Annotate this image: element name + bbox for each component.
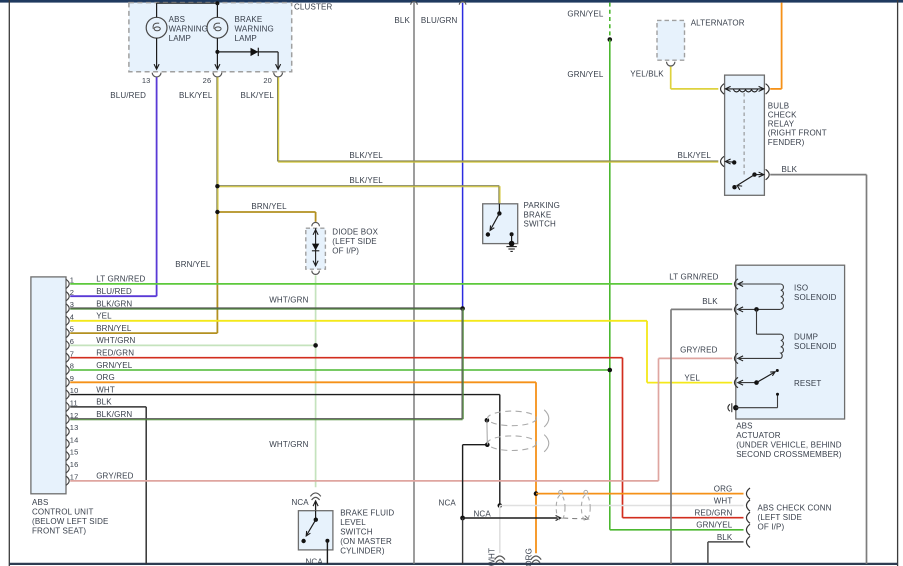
svg-text:RED/GRN: RED/GRN: [96, 349, 134, 358]
svg-text:BRN/YEL: BRN/YEL: [96, 324, 132, 333]
svg-text:ABS: ABS: [32, 498, 48, 507]
svg-text:LT GRN/RED: LT GRN/RED: [96, 275, 145, 284]
svg-text:DIODE BOX: DIODE BOX: [332, 227, 378, 236]
svg-text:BLK/GRN: BLK/GRN: [96, 410, 132, 419]
svg-text:OF I/P): OF I/P): [758, 522, 785, 531]
svg-text:CONTROL UNIT: CONTROL UNIT: [32, 508, 94, 517]
svg-text:10: 10: [70, 386, 79, 395]
svg-text:NCA: NCA: [439, 499, 457, 508]
svg-text:(ON MASTER: (ON MASTER: [340, 537, 392, 546]
svg-text:GRN/YEL: GRN/YEL: [696, 521, 733, 530]
svg-text:WHT/GRN: WHT/GRN: [269, 295, 308, 304]
svg-text:14: 14: [70, 435, 79, 444]
svg-text:ISO: ISO: [794, 283, 808, 292]
svg-text:WHT: WHT: [714, 496, 733, 505]
svg-text:NCA: NCA: [474, 509, 492, 518]
svg-text:(BELOW LEFT SIDE: (BELOW LEFT SIDE: [32, 517, 109, 526]
svg-text:SWITCH: SWITCH: [524, 219, 557, 228]
svg-text:RELAY: RELAY: [768, 120, 795, 129]
svg-text:BRAKE FLUID: BRAKE FLUID: [340, 508, 394, 517]
svg-text:ABS: ABS: [169, 15, 185, 24]
svg-text:NCA: NCA: [306, 558, 324, 566]
svg-text:BLK/YEL: BLK/YEL: [677, 151, 711, 160]
svg-text:WARNING: WARNING: [169, 24, 208, 33]
svg-text:SECOND CROSSMEMBER): SECOND CROSSMEMBER): [736, 450, 842, 459]
svg-text:13: 13: [70, 423, 79, 432]
svg-text:20: 20: [263, 76, 272, 85]
svg-text:16: 16: [70, 460, 79, 469]
svg-text:BLK: BLK: [394, 16, 410, 25]
svg-text:RESET: RESET: [794, 379, 821, 388]
svg-text:CLUSTER: CLUSTER: [294, 3, 332, 12]
svg-text:13: 13: [142, 76, 151, 85]
svg-text:BRAKE: BRAKE: [235, 15, 263, 24]
svg-text:SOLENOID: SOLENOID: [794, 342, 837, 351]
svg-text:BLK/YEL: BLK/YEL: [349, 151, 383, 160]
svg-text:ACTUATOR: ACTUATOR: [736, 431, 781, 440]
svg-text:(LEFT SIDE: (LEFT SIDE: [332, 237, 376, 246]
svg-text:ORG: ORG: [524, 548, 533, 566]
svg-text:GRY/RED: GRY/RED: [96, 472, 133, 481]
svg-text:YEL: YEL: [684, 374, 700, 383]
svg-text:BLK: BLK: [782, 165, 798, 174]
svg-text:LEVEL: LEVEL: [340, 518, 366, 527]
svg-text:BLK/YEL: BLK/YEL: [349, 176, 383, 185]
svg-text:WHT/GRN: WHT/GRN: [96, 336, 135, 345]
svg-text:(RIGHT FRONT: (RIGHT FRONT: [768, 129, 827, 138]
svg-text:FRONT SEAT): FRONT SEAT): [32, 527, 86, 536]
svg-text:WHT/GRN: WHT/GRN: [269, 440, 308, 449]
svg-text:(UNDER VEHICLE, BEHIND: (UNDER VEHICLE, BEHIND: [736, 441, 842, 450]
svg-text:BRAKE: BRAKE: [524, 210, 552, 219]
svg-text:GRN/YEL: GRN/YEL: [96, 361, 133, 370]
svg-text:BLU/GRN: BLU/GRN: [421, 16, 458, 25]
svg-text:SWITCH: SWITCH: [340, 527, 373, 536]
svg-text:RED/GRN: RED/GRN: [694, 509, 732, 518]
svg-text:BLK/YEL: BLK/YEL: [240, 91, 274, 100]
svg-text:YEL/BLK: YEL/BLK: [630, 69, 664, 78]
svg-text:BLK: BLK: [717, 533, 733, 542]
svg-text:OF I/P): OF I/P): [332, 246, 359, 255]
svg-text:17: 17: [70, 472, 79, 481]
svg-text:BLU/RED: BLU/RED: [96, 287, 132, 296]
svg-text:BLK: BLK: [96, 398, 112, 407]
svg-text:ORG: ORG: [714, 485, 733, 494]
svg-text:GRN/YEL: GRN/YEL: [567, 9, 604, 18]
svg-text:(LEFT SIDE: (LEFT SIDE: [758, 513, 802, 522]
svg-text:ABS CHECK CONN: ABS CHECK CONN: [758, 503, 832, 512]
svg-text:WARNING: WARNING: [235, 24, 274, 33]
svg-text:BLK: BLK: [702, 297, 718, 306]
svg-text:WHT: WHT: [96, 385, 115, 394]
svg-text:ORG: ORG: [96, 373, 115, 382]
svg-text:FENDER): FENDER): [768, 138, 805, 147]
svg-text:15: 15: [70, 448, 79, 457]
svg-text:PARKING: PARKING: [524, 201, 560, 210]
svg-text:LAMP: LAMP: [169, 34, 191, 43]
svg-text:NCA: NCA: [291, 498, 309, 507]
svg-text:LT GRN/RED: LT GRN/RED: [669, 272, 718, 281]
svg-text:WHT: WHT: [488, 548, 497, 566]
svg-text:BULB: BULB: [768, 101, 790, 110]
svg-text:CYLINDER): CYLINDER): [340, 546, 385, 555]
svg-text:BRN/YEL: BRN/YEL: [251, 202, 287, 211]
svg-text:BLU/RED: BLU/RED: [110, 91, 146, 100]
svg-text:ALTERNATOR: ALTERNATOR: [691, 18, 745, 27]
svg-text:GRN/YEL: GRN/YEL: [567, 70, 604, 79]
svg-text:GRY/RED: GRY/RED: [680, 345, 717, 354]
svg-text:SOLENOID: SOLENOID: [794, 293, 837, 302]
svg-text:LAMP: LAMP: [235, 34, 257, 43]
svg-text:26: 26: [203, 76, 212, 85]
svg-text:DUMP: DUMP: [794, 333, 818, 342]
svg-text:BLK/YEL: BLK/YEL: [179, 91, 213, 100]
svg-text:ABS: ABS: [736, 422, 752, 431]
svg-text:CHECK: CHECK: [768, 111, 797, 120]
svg-text:BRN/YEL: BRN/YEL: [175, 260, 211, 269]
svg-text:BLK/GRN: BLK/GRN: [96, 299, 132, 308]
svg-text:YEL: YEL: [96, 312, 112, 321]
